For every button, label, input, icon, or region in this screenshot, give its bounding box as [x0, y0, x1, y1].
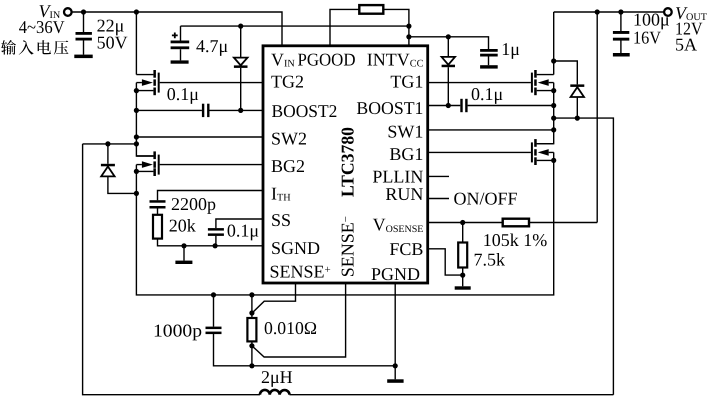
- diode D1 INTVCC to BOOST2: [234, 26, 248, 110]
- junction R5 bottom at ground rail: [249, 363, 254, 368]
- svg-text:TG2: TG2: [271, 71, 304, 91]
- label 7.5k: [474, 249, 506, 269]
- ground below C3: [480, 65, 498, 68]
- svg-text:0.1μ: 0.1μ: [471, 84, 503, 104]
- svg-text:BOOST1: BOOST1: [356, 98, 423, 118]
- pin label FCB: [389, 239, 423, 259]
- wire VOUT top rail: [554, 11, 664, 13]
- wire BG2 gate: [160, 164, 263, 166]
- label input voltage chinese: [1, 40, 68, 55]
- junction at diode D2 anode: [446, 34, 451, 39]
- junction VOUT at 100u cap: [618, 9, 623, 14]
- pin label PGND: [371, 264, 420, 284]
- junction VOSENSE divider: [460, 220, 465, 225]
- svg-text:2200p: 2200p: [171, 194, 216, 214]
- capacitor C1 22u lead: [83, 12, 85, 55]
- label ON/OFF: [454, 188, 518, 208]
- pin label BG1: [389, 144, 423, 164]
- node VIN input terminal: [64, 8, 72, 16]
- label 1000p: [153, 321, 202, 341]
- diode D3 SW2 clamp: [101, 144, 136, 194]
- junction sense rail at 1000p: [211, 292, 216, 297]
- svg-text:LTC3780: LTC3780: [338, 127, 358, 197]
- svg-text:0.1μ: 0.1μ: [167, 84, 199, 104]
- wire 105k to VOUT: [529, 12, 597, 223]
- svg-text:5A: 5A: [675, 34, 697, 54]
- wire ITH pin: [158, 191, 264, 201]
- wire SENSE+ kelvin: [253, 283, 296, 312]
- capacitor C3 1u: [480, 49, 498, 65]
- wire SW1 node vertical: [537, 83, 554, 144]
- svg-text:4.7μ: 4.7μ: [196, 36, 228, 56]
- svg-text:1μ: 1μ: [501, 39, 520, 59]
- label 4~36V: [19, 17, 65, 37]
- pin label BG2: [271, 156, 305, 176]
- junction at Q3 drain branch: [134, 9, 139, 14]
- wire PGOOD pin to resistor R1: [330, 9, 359, 45]
- svg-text:SENSE−: SENSE−: [338, 216, 358, 277]
- label 12V: [675, 18, 703, 38]
- junction sense rail at R5: [249, 292, 254, 297]
- junction R4 bottom: [460, 273, 465, 278]
- junction Q3 source: [134, 88, 139, 93]
- wire BOOST1 pin: [428, 105, 554, 107]
- junction diode D3 anode return: [134, 191, 139, 196]
- wire left rail: [83, 144, 260, 395]
- junction SW2 left branch: [134, 141, 139, 146]
- svg-text:SGND: SGND: [271, 238, 320, 258]
- pin label SW2: [271, 129, 307, 149]
- label 1u: [501, 39, 520, 59]
- wire BG1 gate: [428, 151, 531, 153]
- svg-text:BG2: BG2: [271, 156, 305, 176]
- svg-text:PGOOD: PGOOD: [298, 49, 356, 69]
- label 0.1u left: [167, 84, 199, 104]
- wire SW2 to left rail: [83, 143, 137, 145]
- transistor Q3 top switch left: [136, 70, 159, 95]
- pin label VOSENSE: [373, 214, 424, 234]
- svg-text:FCB: FCB: [389, 239, 423, 259]
- ground at PGND: [387, 366, 403, 383]
- junction at 22u cap: [81, 9, 86, 14]
- wire VOSENSE pin: [428, 222, 503, 224]
- junction BOOST1 at diode D2: [446, 103, 451, 108]
- wire bottom rail right: [290, 394, 614, 396]
- pin label BOOST1: [356, 98, 423, 118]
- capacitor C6 0.1u soft-start: [208, 228, 224, 246]
- label 50V: [97, 33, 128, 53]
- transistor Q1 top switch right: [531, 70, 554, 95]
- label 2200p: [171, 194, 216, 214]
- wire BOOST2 pin: [136, 109, 263, 111]
- junction SW1 at diode D4 anode: [575, 116, 580, 121]
- wire SENSE- kelvin: [252, 283, 346, 357]
- diode D4 SW1 clamp: [554, 61, 585, 118]
- capacitor C5 2200p: [150, 200, 166, 215]
- label 20k: [169, 216, 196, 236]
- label 0.1u right: [471, 84, 503, 104]
- wire resistor R1 to INTVCC pin: [383, 9, 409, 45]
- pin label SS: [271, 210, 291, 230]
- junction Q4 source: [134, 169, 139, 174]
- wire C9 to ground rail: [214, 334, 396, 366]
- pin label TG2: [271, 71, 304, 91]
- svg-text:0.010Ω: 0.010Ω: [264, 318, 317, 338]
- pin label ITH: [271, 183, 291, 203]
- wire VOUT down to Q1 drain: [553, 12, 555, 75]
- wire VIN branch down to Q3 drain: [135, 12, 137, 75]
- capacitor C2 polarity plus: [172, 33, 178, 39]
- pin label BOOST2: [272, 101, 338, 121]
- label 2uH: [261, 367, 293, 387]
- capacitor C2 4.7u plates: [171, 41, 190, 50]
- junction PGND at ground rail: [393, 363, 398, 368]
- junction Q2 source: [551, 158, 556, 163]
- wire INTVCC rail: [181, 25, 409, 27]
- wire PLLIN stub: [428, 175, 449, 177]
- wire SS pin: [216, 219, 263, 228]
- pin label SW1: [387, 121, 423, 141]
- capacitor C4 0.1u BOOST2: [202, 104, 210, 117]
- capacitor C2 4.7u lead: [180, 26, 182, 60]
- junction SW2 at BOOST2 cap: [134, 108, 139, 113]
- wire FCB pin: [428, 249, 463, 275]
- svg-text:50V: 50V: [97, 33, 128, 53]
- svg-text:TG1: TG1: [390, 71, 423, 91]
- wire TG2 gate: [160, 82, 263, 84]
- pin label SENSE- vertical: [338, 216, 358, 277]
- svg-text:RUN: RUN: [385, 184, 423, 204]
- junction SW1 at BOOST1 cap: [551, 103, 556, 108]
- svg-text:BOOST2: BOOST2: [272, 101, 338, 121]
- inductor L1 2uH: [260, 390, 290, 395]
- svg-text:SW1: SW1: [387, 121, 423, 141]
- label 100u: [633, 10, 670, 30]
- capacitor C8 0.1u BOOST1: [460, 99, 467, 112]
- label VIN: [39, 1, 61, 21]
- label LTC3780 vertical: [338, 127, 358, 197]
- junction SW2 pin wire: [134, 134, 139, 139]
- svg-text:PGND: PGND: [371, 264, 420, 284]
- svg-text:16V: 16V: [633, 27, 661, 47]
- svg-text:7.5k: 7.5k: [474, 249, 506, 269]
- node VOUT output terminal: [664, 8, 672, 16]
- junction SS cap at SGND rail: [213, 243, 218, 248]
- label VOUT: [675, 3, 708, 23]
- resistor R5 0.010 ohm sense: [247, 295, 256, 366]
- svg-text:0.1μ: 0.1μ: [227, 220, 259, 240]
- op-amp U1 LTC3780 body: [263, 46, 428, 283]
- svg-text:1000p: 1000p: [153, 321, 202, 341]
- capacitor C9 1000p: [206, 295, 222, 334]
- label 0.010 ohm: [264, 318, 317, 338]
- label 22u: [97, 16, 125, 36]
- resistor R4 7.5k: [458, 223, 467, 276]
- junction R5 top kelvin: [249, 310, 254, 315]
- wire SW1 to inductor right: [554, 118, 614, 395]
- resistor R1 PGOOD pullup: [359, 5, 383, 14]
- label 105k 1%: [483, 230, 548, 250]
- label 5A: [675, 34, 697, 54]
- junction at diode D4 cathode branch: [551, 58, 556, 63]
- diode D2 INTVCC to BOOST1: [442, 37, 455, 106]
- junction INTVCC at bootstrap diode D1: [238, 24, 243, 29]
- ground below C2: [171, 60, 189, 63]
- junction VOUT at feedback divider: [595, 9, 600, 14]
- transistor Q4 bottom switch left: [136, 151, 159, 176]
- junction BOOST2 at diode D1: [238, 108, 243, 113]
- pin label VIN: [271, 49, 295, 69]
- wire R2 to SGND rail: [158, 239, 264, 246]
- svg-text:SW2: SW2: [271, 129, 307, 149]
- label 4.7u: [196, 36, 228, 56]
- junction at diode D3 cathode: [105, 141, 110, 146]
- ground at FCB divider: [455, 275, 471, 290]
- wire VIN top rail to IC VIN pin: [71, 12, 282, 46]
- pin label PLLIN: [372, 166, 423, 186]
- junction R5 bottom kelvin: [249, 343, 254, 348]
- svg-text:SENSE+: SENSE+: [270, 261, 331, 281]
- wire SW1 pin: [428, 129, 554, 131]
- pin label RUN: [385, 184, 423, 204]
- wire TG1 gate: [428, 82, 531, 84]
- junction SGND ground: [181, 243, 186, 248]
- pin label PGOOD: [298, 49, 356, 69]
- svg-text:20k: 20k: [169, 216, 196, 236]
- svg-text:105k 1%: 105k 1%: [483, 230, 548, 250]
- wire SW2 pin: [136, 136, 263, 138]
- label 16V: [633, 27, 661, 47]
- svg-text:SS: SS: [271, 210, 291, 230]
- svg-text:ON/OFF: ON/OFF: [454, 188, 518, 208]
- junction SW1 pin wire: [551, 127, 556, 132]
- junction INTVCC branch right: [406, 34, 411, 39]
- ground at SGND: [175, 246, 192, 264]
- junction SW1 branch: [551, 116, 556, 121]
- label 0.1u soft-start: [227, 220, 259, 240]
- svg-text:BG1: BG1: [389, 144, 423, 164]
- wire Q4 source down and current sense rail: [136, 152, 553, 295]
- wire PGND pin: [394, 283, 396, 366]
- resistor R2 20k: [153, 215, 162, 239]
- resistor R3 105k: [503, 219, 529, 227]
- svg-text:2μH: 2μH: [261, 367, 293, 387]
- capacitor C7 100u: [613, 12, 629, 53]
- wire SW2 node vertical: [136, 83, 153, 156]
- pin label TG1: [390, 71, 423, 91]
- capacitor C1 22u plates: [76, 32, 92, 41]
- ground below C7: [613, 53, 630, 57]
- svg-text:4~36V: 4~36V: [19, 17, 65, 37]
- pin label SENSE+: [270, 261, 331, 281]
- ground below C1: [74, 55, 92, 59]
- pin label SGND: [271, 238, 320, 258]
- transistor Q2 bottom switch right: [531, 139, 554, 165]
- junction INTVCC at IC pin: [406, 24, 411, 29]
- junction Q1 source: [551, 88, 556, 93]
- pin label INTVCC: [367, 49, 424, 69]
- wire RUN stub: [428, 198, 449, 200]
- wire INTVCC to 1u cap and bootstrap diode D2: [409, 37, 489, 49]
